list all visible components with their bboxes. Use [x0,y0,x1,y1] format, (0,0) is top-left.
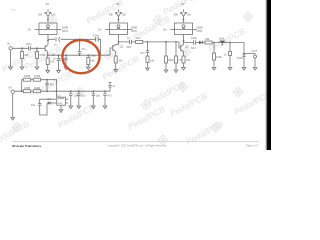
node stage2 rail junction [147,41,149,43]
capacitor C2 coupling polarized [56,37,60,42]
ground R10 [164,70,168,73]
diode D2 series [199,41,203,45]
svg-text:10k: 10k [118,59,123,63]
wire riser to rail B [22,80,24,92]
svg-text:2N: 2N [28,28,31,32]
ground R12 [182,68,186,71]
wire J1 to ground [10,50,12,67]
svg-text:100k: 100k [90,54,96,58]
svg-text:PedalPCB: PedalPCB [184,119,225,147]
ground C10 [242,68,246,71]
wire tap to output jack [244,54,255,55]
ground C13 [77,106,81,109]
wire top rail stage1 to stage2 [48,39,101,55]
svg-text:12k: 12k [122,13,127,17]
capacitor C12 flying [38,99,54,115]
wire supply to box Q1 [47,19,49,23]
ground C17 [69,106,73,109]
pin 1 Q2 box left [105,29,109,31]
ground R19 [212,68,216,71]
capacitor C3 shunt [64,55,67,67]
resistor R1 [21,48,23,67]
svg-text:100k: 100k [216,55,222,59]
svg-text:39k: 39k [38,13,43,17]
wire supply to box Q3 [183,19,185,23]
power symbol 9V stage 1 [45,9,52,19]
resistor R8 series [136,40,143,43]
svg-text:100R: 100R [34,74,40,78]
svg-text:12k: 12k [51,13,56,17]
wire rail B [31,79,57,81]
svg-text:47k: 47k [178,58,183,62]
dc jack J3 [11,90,14,93]
node rail C C14 [92,90,94,92]
capacitor C17 shunt [69,91,72,106]
right edge dark strip [265,0,271,150]
svg-text:1044: 1044 [57,103,63,105]
wire stage2 output rail [119,41,180,43]
wire riser right to IC [56,80,58,98]
svg-text:10k: 10k [150,58,155,62]
node Q2 collector [118,41,120,43]
ground R2 [35,67,39,70]
svg-text:PedalPCB: PedalPCB [126,104,167,132]
resistor R18 [33,90,40,93]
svg-text:IN: IN [7,42,10,46]
power symbol 9V stage 2 [115,9,122,19]
resistor R13 series [205,41,212,44]
transistor module box Q2 [110,23,128,35]
svg-text:D1: D1 [48,97,52,101]
pin 2 Q1 box bottom wire [47,35,49,45]
ground C14 [91,106,95,109]
wire bottom rail stage1 to stage2 [48,54,110,56]
wire rail step up to Q2 base [110,48,113,55]
node Q3 collector [183,40,185,42]
svg-text:56k: 56k [90,59,95,63]
capacitor C13 shunt [77,91,80,106]
pin IC1 right top [65,98,68,100]
node 9V dot stage 3 [183,19,185,21]
svg-text:47u: 47u [50,83,55,87]
resistor R10 shunt [165,42,167,70]
pin 3 Q3 box right [193,29,197,31]
wire IC1 ground pin [60,105,62,110]
svg-text:NPN: NPN [62,29,68,33]
node bottom rail C3 [65,54,67,56]
svg-text:PedalPCB: PedalPCB [206,26,247,54]
node top rail C4 tap [79,38,81,40]
svg-text:9V: 9V [181,2,184,6]
svg-text:10u: 10u [74,94,79,98]
ground R9 [146,68,150,71]
svg-text:10k: 10k [186,58,191,62]
pin 1 Q1 box left [35,29,39,31]
svg-text:2N: 2N [163,28,166,32]
svg-text:Discrete Transistors: Discrete Transistors [12,144,41,148]
svg-text:OUT: OUT [252,49,258,53]
capacitor C10 shunt [242,43,245,68]
svg-text:10u: 10u [31,103,36,107]
svg-text:100n: 100n [26,42,32,46]
node rail B C11 [46,79,48,81]
svg-text:100R: 100R [24,86,30,90]
transistor module box Q3 [175,23,193,35]
node rail R11 [175,41,177,43]
svg-text:10k: 10k [136,36,141,40]
svg-text:12k: 12k [187,13,192,17]
capacitor C16 top right [108,83,111,92]
wire output rail [184,42,245,44]
ground R1 [20,67,24,70]
node rail R10 [165,41,167,43]
node Q1 emitter [47,54,49,56]
svg-text:390k: 390k [168,58,174,62]
resistor R12 Q3 emitter [183,55,185,68]
capacitor C8 series [194,40,196,45]
node Q1 collector [47,40,49,42]
svg-text:NPN: NPN [131,29,137,33]
ground R14 [228,68,232,71]
svg-text:Copyright © 2021 PedalPCB.com: Copyright © 2021 PedalPCB.com - All Righ… [108,145,167,148]
power symbol 9V stage 3 [180,9,187,19]
svg-text:IC1: IC1 [57,93,62,97]
resistor R9 shunt [146,56,149,63]
svg-text:47n: 47n [140,51,145,55]
node 9V dot stage 1 [47,19,49,21]
svg-text:Q3: Q3 [185,45,189,49]
svg-text:100n: 100n [191,36,197,40]
svg-text:10u: 10u [96,94,101,98]
svg-text:63V: 63V [191,46,196,50]
resistor R15 [23,78,30,81]
svg-text:1u: 1u [53,56,56,60]
ground J1 [9,67,13,70]
svg-text:1u: 1u [112,84,115,88]
svg-text:9V: 9V [9,85,12,89]
node input rail R2 [36,47,38,49]
node 9V dot stage 2 [118,19,120,21]
pin 3 Q2 box right [128,29,132,31]
svg-text:Q2: Q2 [120,44,124,48]
svg-text:NPN: NPN [197,29,203,33]
svg-text:9V: 9V [46,2,49,6]
node rail A C11 [46,90,48,92]
capacitor C6b series top rail [96,37,99,42]
resistor R14 shunt [229,43,231,68]
pin 3 Q1 box right [57,29,61,31]
input jack J1 [9,47,12,50]
pin IC1 right bottom [65,102,68,104]
svg-text:100k: 100k [219,36,225,40]
ground J2 [253,68,257,71]
capacitor C15 shunt [103,91,106,106]
node rail R14 [229,42,231,44]
pin 2 Q2 box bottom wire [118,35,120,40]
transistor Q2 [113,44,116,55]
node rail C C13 [78,90,80,92]
svg-text:50V: 50V [127,45,132,49]
svg-text:33k: 33k [205,37,210,41]
svg-text:47u: 47u [107,94,112,98]
ground J3 [11,118,15,121]
svg-text:2N: 2N [98,28,101,32]
ground R5 [86,67,90,70]
node input rail R1 [21,47,23,49]
footer rule [12,141,259,143]
svg-text:39k: 39k [109,13,114,17]
ground IC1 [59,110,63,113]
svg-text:Page 1 of 1: Page 1 of 1 [246,145,259,148]
node rail C C15 [104,90,106,92]
ground R11 [174,70,178,73]
svg-text:100n: 100n [93,33,99,37]
svg-text:470k: 470k [39,53,45,57]
trimmer VR1 marker [220,41,225,44]
pin 1 Q3 box left [170,29,174,31]
wire input rail [13,47,43,49]
node riser [21,90,23,92]
ground C5 [57,70,61,73]
transistor module box Q1 [39,23,57,35]
wire supply to box Q2 [118,19,120,23]
node rail C17 [70,90,72,92]
capacitor C7 shunt [146,42,149,56]
resistor R11 shunt [175,42,177,70]
charge pump IC1 box [57,97,66,105]
node rail A right [56,90,58,92]
resistor R5 shunt [87,55,89,67]
node bottom rail C5 [58,54,60,56]
node tap C10 [243,53,245,55]
annotation highlight ellipse [62,40,99,73]
svg-text:10u: 10u [81,94,86,98]
diode D1 [47,101,54,104]
svg-text:39k: 39k [174,13,179,17]
capacitor C1 input [29,46,31,51]
pin IC1 left bottom [54,102,57,104]
node rail R19 [213,42,215,44]
capacitor C6 series [129,40,131,45]
node bottom rail R5 [87,54,89,56]
svg-text:9V: 9V [116,2,119,6]
pin 2 Q3 box bottom wire [183,35,185,45]
resistor R7 Q2 emitter [115,55,117,70]
resistor R3 emitter [47,55,49,70]
wire J3 to ground [12,94,14,118]
node bottom rail C4 [79,54,81,56]
resistor R19 shunt [213,43,215,68]
svg-text:47n: 47n [81,47,86,51]
pin IC1 left top [54,98,57,100]
svg-text:1u: 1u [54,42,57,46]
capacitor C5 shunt emitter [57,55,60,70]
transistor Q1 [42,44,48,55]
resistor R17 [23,90,30,93]
node top rail to bottom rail [100,54,102,56]
svg-text:1u: 1u [224,53,227,57]
ground R7 [114,70,118,73]
svg-text:100R: 100R [24,74,30,78]
ground C15 [103,106,107,109]
ground R3 [46,70,50,73]
svg-text:100n: 100n [237,56,243,60]
svg-text:PedalPCB: PedalPCB [168,91,209,119]
ground C3 [64,67,68,70]
wire supply rail A [15,90,110,92]
transistor Q3 [181,44,184,55]
svg-text:Q1: Q1 [52,52,56,56]
capacitor C4 between rails [78,39,81,55]
capacitor C11 between rails [45,80,48,92]
resistor R2 [36,48,38,67]
resistor R16 [33,78,40,81]
wire step to Q3 base [179,42,181,48]
output jack J2 [254,55,257,58]
svg-text:100R: 100R [34,86,40,90]
capacitor C14 shunt [92,91,95,106]
svg-text:1u: 1u [127,36,130,40]
